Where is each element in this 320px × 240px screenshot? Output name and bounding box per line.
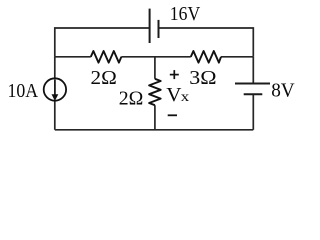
current source I1 arrow bbox=[52, 80, 59, 101]
wire middle branch below resistor bbox=[154, 105, 156, 130]
wire top rail right of 16V battery bbox=[159, 28, 254, 57]
wire left vertical through current source bbox=[54, 57, 56, 130]
resistor R2 3ohm horizontal bbox=[191, 51, 221, 63]
battery V2 8V long plate bbox=[235, 83, 270, 85]
battery V1 16V long plate bbox=[149, 9, 151, 43]
battery V2 8V short plate bbox=[244, 93, 263, 95]
wire right vertical to 8V battery bbox=[252, 57, 254, 84]
resistor R3 2ohm vertical bbox=[149, 79, 161, 105]
wire second rail right segment bbox=[221, 56, 253, 58]
svg-text:8V: 8V bbox=[271, 79, 295, 101]
svg-text:3Ω: 3Ω bbox=[189, 67, 216, 89]
wire top rail left of 16V battery bbox=[55, 28, 150, 57]
resistor R1 2ohm horizontal bbox=[91, 51, 122, 63]
svg-text:V: V bbox=[166, 84, 181, 106]
wire second rail middle segment bbox=[121, 56, 190, 58]
current source I1 circle bbox=[44, 78, 66, 100]
svg-text:2Ω: 2Ω bbox=[91, 67, 117, 89]
svg-text:16V: 16V bbox=[170, 3, 201, 25]
wire bottom rail bbox=[55, 129, 254, 131]
node plus sign for Vx bbox=[170, 70, 179, 79]
wire right vertical below 8V battery bbox=[252, 94, 254, 130]
battery V1 16V short plate bbox=[158, 20, 160, 38]
wire second rail left segment bbox=[55, 56, 91, 58]
wire middle branch above resistor bbox=[154, 57, 156, 79]
node minus sign for Vx bbox=[168, 114, 177, 116]
svg-text:10A: 10A bbox=[8, 80, 39, 102]
svg-text:2Ω: 2Ω bbox=[119, 88, 144, 110]
svg-text:x: x bbox=[181, 89, 190, 104]
